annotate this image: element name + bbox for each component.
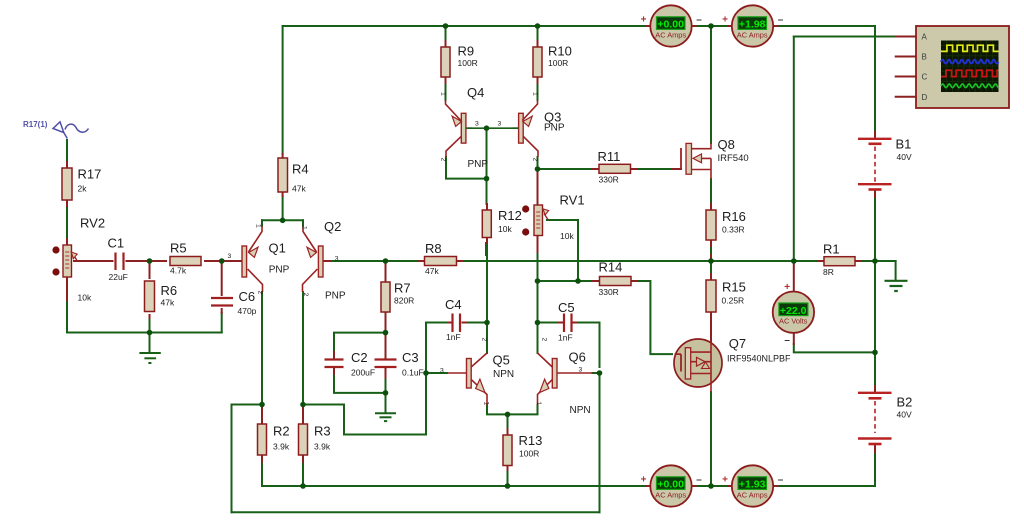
- svg-text:PNP: PNP: [544, 123, 565, 134]
- wire C6 bottom: [221, 313, 223, 333]
- wire scope A horizontal: [794, 36, 896, 38]
- svg-text:3: 3: [440, 368, 444, 375]
- svg-text:+: +: [722, 474, 728, 485]
- svg-text:330R: 330R: [599, 287, 619, 297]
- ground R6: [139, 353, 160, 363]
- wire mid rail R16node to scope node: [711, 260, 794, 262]
- wire voltmeter node to B2: [874, 352, 876, 386]
- svg-text:1nF: 1nF: [446, 332, 461, 342]
- node Q3Q4 bases: [484, 125, 490, 131]
- wire input source to R17: [66, 140, 68, 162]
- svg-text:2: 2: [481, 338, 488, 342]
- wire bottom long rail: [232, 511, 600, 513]
- wire scope stub D: [896, 96, 916, 98]
- svg-text:47k: 47k: [161, 298, 175, 308]
- svg-text:R17(1): R17(1): [23, 120, 48, 129]
- wire Q5 base vertical: [425, 373, 427, 435]
- svg-text:3.9k: 3.9k: [314, 442, 331, 452]
- WIRES-GREEN: [67, 26, 896, 512]
- wire R7 top lead: [385, 261, 387, 282]
- wire R2 bottom drop: [261, 462, 263, 486]
- wire meter1 stubs: [646, 25, 696, 27]
- wire scope stub C: [896, 76, 916, 78]
- wire R6 ground drop: [149, 333, 151, 353]
- svg-text:D: D: [922, 93, 928, 102]
- wire top rail right of meter2: [778, 25, 876, 27]
- transistor Q6: [538, 353, 593, 405]
- scope trace B blue: [941, 60, 999, 64]
- node R2 top: [259, 402, 265, 408]
- wire Q8 gate red stub: [672, 168, 681, 170]
- wire C2C3 top bracket: [334, 333, 386, 350]
- node R16 R15 rail: [708, 258, 714, 264]
- svg-text:3: 3: [498, 121, 502, 128]
- probe dot RV2 a: [52, 246, 59, 253]
- svg-text:Q7: Q7: [729, 336, 746, 351]
- capacitor C6: [211, 298, 233, 306]
- node Q5 base: [423, 370, 429, 376]
- svg-text:R3: R3: [314, 424, 331, 439]
- node RV1 wiper: [575, 278, 581, 284]
- resistor R9: [441, 47, 450, 77]
- resistor R8: [425, 257, 457, 266]
- wire R14 stubs: [593, 280, 637, 282]
- svg-text:+: +: [641, 14, 647, 25]
- node R6 gnd: [147, 330, 153, 336]
- node meters top: [708, 23, 714, 29]
- wire Q4 collector L: [446, 157, 487, 179]
- svg-text:+1.98: +1.98: [739, 19, 766, 31]
- svg-text:AC Amps: AC Amps: [737, 30, 768, 39]
- svg-text:R6: R6: [161, 283, 178, 298]
- wire C5 left lead: [538, 322, 559, 324]
- wire battery node to output ground: [875, 260, 896, 262]
- svg-text:AC Amps: AC Amps: [737, 490, 768, 499]
- wire R14 line left: [538, 280, 594, 282]
- svg-text:Q5: Q5: [493, 352, 510, 367]
- svg-text:Q8: Q8: [718, 137, 735, 152]
- node R13 bottom: [505, 483, 511, 489]
- wire Q1 base: [222, 260, 242, 262]
- wire feedback left vertical: [231, 405, 233, 513]
- svg-text:+: +: [722, 14, 728, 25]
- wire Q3 collector to R11 node: [537, 157, 539, 169]
- svg-text:330R: 330R: [599, 175, 619, 185]
- resistor R12: [482, 210, 491, 238]
- svg-text:8R: 8R: [823, 267, 834, 277]
- probe dot RV1 a: [522, 205, 529, 212]
- wire top rail y26: [283, 25, 646, 27]
- svg-text:2: 2: [541, 338, 548, 342]
- wire R6 bottom stub: [149, 318, 151, 333]
- svg-text:+: +: [641, 474, 647, 485]
- svg-text:1: 1: [483, 402, 490, 406]
- wire R1 to battery node: [861, 260, 875, 262]
- svg-text:R2: R2: [273, 424, 290, 439]
- capacitor C3: [375, 360, 397, 368]
- svg-text:22uF: 22uF: [109, 272, 128, 282]
- wire R9 stubs: [445, 41, 447, 83]
- svg-text:820R: 820R: [394, 296, 414, 306]
- wire Q2 emitter drop: [302, 220, 304, 226]
- wire voltmeter top lead: [793, 261, 795, 292]
- svg-text:–: –: [696, 15, 702, 26]
- resistor R7: [381, 282, 390, 312]
- wire Q4 base dot to R12: [486, 128, 488, 204]
- potentiometer RV2: [63, 245, 77, 277]
- svg-text:1: 1: [532, 92, 539, 96]
- node Q3 collector R11: [535, 166, 541, 172]
- resistor R17: [62, 168, 72, 200]
- wire V+ rail down to R4: [282, 26, 284, 154]
- wire R13 top stub: [507, 414, 509, 429]
- transistor Q5: [447, 353, 487, 405]
- svg-text:+22.0: +22.0: [780, 305, 807, 317]
- transistor Q2: [303, 226, 324, 292]
- wire RV2 top red stub: [66, 239, 68, 245]
- wire R4 stubs: [282, 154, 284, 196]
- svg-text:200uF: 200uF: [351, 368, 375, 378]
- svg-text:4.7k: 4.7k: [170, 266, 187, 276]
- node scope rail: [791, 258, 797, 264]
- svg-text:Q4: Q4: [467, 85, 484, 100]
- wire B2 leads: [874, 386, 876, 452]
- svg-text:3: 3: [475, 121, 479, 128]
- wire R1 stubs: [818, 260, 861, 262]
- node R13 top: [505, 412, 511, 418]
- wire meter3 stubs: [646, 485, 696, 487]
- svg-text:2: 2: [532, 158, 539, 162]
- wire Q5 base horizontal: [426, 372, 447, 374]
- capacitor C4: [453, 314, 461, 333]
- node Q1 base C6: [219, 258, 225, 264]
- svg-text:+1.93: +1.93: [739, 479, 766, 491]
- wire scope stub B: [896, 56, 916, 58]
- svg-text:47k: 47k: [292, 184, 306, 194]
- wire R11 left lead: [538, 168, 593, 170]
- wire C5 right L: [577, 323, 600, 368]
- wire bottom rail between meters: [696, 485, 729, 487]
- svg-text:2: 2: [257, 291, 264, 295]
- input terminal R17(1): [53, 122, 89, 139]
- svg-text:3: 3: [335, 256, 339, 263]
- node RV1 bottom: [535, 278, 541, 284]
- wire R16 stubs: [710, 204, 712, 246]
- svg-text:R15: R15: [722, 280, 746, 295]
- svg-text:Q1: Q1: [269, 241, 286, 256]
- svg-text:PNP: PNP: [269, 264, 290, 275]
- wire Q5 base L route: [344, 405, 426, 435]
- wire output ground drop: [895, 261, 897, 281]
- node C2C3 gnd: [383, 390, 389, 396]
- base rail Q4-Q3: [466, 127, 519, 129]
- svg-text:+0.00: +0.00: [657, 479, 684, 491]
- svg-text:IRF540: IRF540: [718, 153, 749, 164]
- svg-text:C2: C2: [351, 350, 368, 365]
- transistor Q1: [242, 226, 263, 292]
- wire mid rail to R1: [794, 260, 818, 262]
- wire Q6 base vertical lower: [599, 373, 601, 512]
- ground output: [885, 281, 908, 291]
- wire RV1 wiper route: [547, 220, 578, 281]
- wire R10 bottom gap: [537, 83, 539, 100]
- wire RV1 bottom to R14 line: [537, 236, 539, 255]
- wire scope stub A: [896, 36, 916, 38]
- svg-text:R10: R10: [548, 44, 572, 59]
- resistor R15: [706, 280, 716, 312]
- svg-text:R16: R16: [722, 209, 746, 224]
- wire R2 leads: [261, 405, 263, 463]
- svg-text:Q6: Q6: [569, 349, 586, 364]
- svg-text:R13: R13: [519, 433, 543, 448]
- ammeter M1: [641, 5, 703, 46]
- wire R15 leads: [710, 255, 712, 352]
- wire input line red: [74, 260, 113, 262]
- wire Q8 drain up: [710, 26, 712, 143]
- resistor R13: [503, 435, 512, 466]
- wire bottom rail left of meter3: [262, 485, 646, 487]
- wire C6 bottom stub: [221, 309, 223, 313]
- mosfet Q7: [674, 339, 722, 392]
- wire R15 top: [710, 261, 712, 274]
- wire C2 plate stubs: [333, 350, 335, 376]
- wire R3 leads: [302, 405, 304, 463]
- wire Q5 collector vertical: [486, 243, 488, 353]
- wire RV2 bottom L to ground rail: [67, 300, 222, 333]
- resistor R6: [145, 281, 155, 312]
- node Q2 base R7: [383, 258, 389, 264]
- wire scope A vertical: [793, 37, 795, 262]
- svg-text:3: 3: [228, 253, 232, 260]
- resistor R3: [299, 424, 308, 455]
- svg-text:C6: C6: [239, 289, 256, 304]
- wire B1 bottom to rail: [874, 197, 876, 261]
- svg-text:100R: 100R: [519, 449, 539, 459]
- svg-text:PNP: PNP: [468, 159, 489, 170]
- node C4 right: [484, 320, 490, 326]
- wire R11 right to Q8 gate: [637, 168, 672, 170]
- WIRES-RED: [67, 26, 916, 486]
- wire Q2 base to R7 node: [330, 260, 386, 262]
- wire meter4 stubs: [728, 485, 778, 487]
- scope trace A yellow: [941, 45, 999, 51]
- wire R17 to RV2: [66, 206, 68, 239]
- wire R9 top: [445, 26, 447, 41]
- svg-text:C1: C1: [108, 236, 125, 251]
- svg-text:PNP: PNP: [325, 291, 346, 302]
- svg-text:–: –: [778, 475, 784, 486]
- svg-text:AC Volts: AC Volts: [779, 317, 808, 326]
- svg-text:3: 3: [579, 367, 583, 374]
- wire C3 plate stubs: [385, 333, 387, 380]
- wire R7 bottom lead: [385, 312, 387, 333]
- scope trace C red: [941, 70, 999, 76]
- wire R5 to Q1 node: [205, 260, 222, 262]
- resistor R11: [599, 164, 631, 173]
- wire R9 bottom gap: [445, 83, 447, 100]
- wire R2 top rail: [232, 404, 263, 406]
- svg-text:NPN: NPN: [493, 369, 514, 380]
- transistor Q4: [446, 100, 519, 157]
- ammeter M3: [641, 465, 703, 506]
- wire R8 stubs: [418, 260, 463, 262]
- wire battery column top: [874, 26, 876, 132]
- svg-text:RV1: RV1: [560, 193, 585, 208]
- resistor R10: [533, 47, 542, 77]
- wire R13 bottom drop: [507, 470, 509, 486]
- ground C2C3: [375, 413, 396, 421]
- svg-text:AC Amps: AC Amps: [655, 490, 686, 499]
- probe dot RV1 b: [522, 228, 529, 235]
- svg-text:1: 1: [440, 92, 447, 96]
- wire C2C3 gnd drop: [385, 393, 387, 413]
- wire Q1 collector down to R2: [261, 292, 263, 405]
- wire rail to voltmeter node: [874, 261, 876, 352]
- wire C4 left vertical: [426, 323, 448, 374]
- svg-text:47k: 47k: [425, 266, 439, 276]
- node R10 top: [535, 23, 541, 29]
- node C5 left: [535, 320, 541, 326]
- wire B1 leads: [874, 132, 876, 197]
- svg-text:40V: 40V: [897, 410, 912, 420]
- scope trace D green: [941, 84, 999, 88]
- svg-text:–: –: [696, 475, 702, 486]
- node Q6 base: [597, 370, 603, 376]
- svg-text:1: 1: [301, 226, 308, 230]
- wire R6 bottom stub: [149, 315, 151, 318]
- wire R10 top: [537, 26, 539, 41]
- battery B1: [858, 139, 892, 190]
- svg-text:0.25R: 0.25R: [722, 296, 745, 306]
- wire R7 node to R8: [386, 260, 419, 262]
- wire C6 top lead: [221, 261, 223, 295]
- node R4 emitter rail: [280, 218, 286, 224]
- wire R13 leads: [507, 429, 509, 470]
- svg-text:R17: R17: [78, 167, 102, 182]
- voltmeter MV: [773, 282, 814, 346]
- svg-text:1nF: 1nF: [558, 333, 573, 343]
- svg-text:R8: R8: [425, 241, 442, 256]
- wire R3 top rail: [303, 404, 344, 406]
- mosfet Q8: [681, 143, 711, 179]
- capacitor C1: [116, 253, 124, 271]
- transistor Q3: [519, 100, 538, 157]
- wire C4 right lead: [466, 322, 487, 324]
- wire Q5 Q6 emitter joint: [487, 405, 538, 414]
- capacitor C2: [325, 360, 344, 368]
- node battery rail: [872, 258, 878, 264]
- wire voltmeter minus L: [794, 344, 875, 352]
- svg-text:2: 2: [302, 293, 309, 297]
- wire Q6 collector vertical: [537, 281, 539, 353]
- svg-text:10k: 10k: [560, 231, 574, 241]
- oscilloscope: [916, 26, 1009, 108]
- svg-text:C4: C4: [445, 297, 462, 312]
- node R9 top: [443, 23, 449, 29]
- resistor R14: [600, 277, 632, 286]
- svg-text:AC Amps: AC Amps: [655, 30, 686, 39]
- svg-text:R5: R5: [170, 241, 187, 256]
- wire R10 stubs: [537, 41, 539, 83]
- svg-text:100R: 100R: [548, 58, 568, 68]
- battery B2: [858, 393, 892, 444]
- svg-text:C5: C5: [558, 300, 575, 315]
- svg-text:C3: C3: [402, 350, 419, 365]
- resistor R5: [170, 257, 201, 266]
- svg-text:C: C: [922, 73, 928, 82]
- svg-text:R11: R11: [598, 149, 621, 164]
- node R3 bottom: [300, 483, 306, 489]
- wire C1 to R6 node: [127, 260, 150, 262]
- svg-text:R12: R12: [498, 208, 522, 223]
- wire R4 bottom to emitter rail: [282, 196, 284, 220]
- node voltmeter B2: [872, 350, 878, 356]
- resistor R2: [258, 424, 267, 455]
- svg-text:10k: 10k: [78, 293, 92, 303]
- wire C4 stubs: [448, 322, 466, 324]
- svg-text:A: A: [922, 32, 928, 41]
- wire R17 stubs: [66, 162, 68, 206]
- wire Q1 emitter drop: [261, 220, 263, 226]
- node Q4 collector: [484, 176, 490, 182]
- wire Q2 base stub: [323, 260, 330, 262]
- wire C2C3 bottom bracket: [334, 376, 386, 393]
- svg-text:40V: 40V: [897, 152, 912, 162]
- wire R6 node to R5: [150, 260, 167, 262]
- wire RV2 bottom stub: [66, 277, 68, 300]
- wire R12 bottom: [485, 243, 487, 255]
- wire R6 top lead: [149, 261, 151, 278]
- svg-text:3.9k: 3.9k: [273, 442, 290, 452]
- svg-text:B2: B2: [897, 395, 913, 410]
- node R3 top: [300, 402, 306, 408]
- svg-text:+0.00: +0.00: [657, 19, 684, 31]
- PIN NUMBERS: [228, 92, 583, 406]
- wire R3 bottom drop: [302, 462, 304, 486]
- wire R12 stubs: [486, 204, 488, 243]
- resistor R4: [278, 158, 288, 192]
- wire top rail between meters: [696, 25, 729, 27]
- ammeter M2: [722, 5, 784, 46]
- svg-text:10k: 10k: [498, 224, 512, 234]
- wire C5 stubs: [559, 322, 578, 324]
- svg-text:470p: 470p: [238, 306, 257, 316]
- svg-text:NPN: NPN: [570, 405, 591, 416]
- wire B2 bottom to bottom rail: [874, 452, 876, 486]
- wire R11 node down to RV1: [537, 169, 539, 205]
- wire R16 bottom: [710, 246, 712, 255]
- svg-text:2k: 2k: [78, 184, 88, 194]
- svg-text:RV2: RV2: [80, 216, 105, 231]
- node meters bottom: [708, 483, 714, 489]
- node C1 R5 R6: [147, 258, 153, 264]
- svg-text:R9: R9: [458, 44, 475, 59]
- svg-text:2: 2: [440, 158, 447, 162]
- svg-text:0.1uF: 0.1uF: [402, 368, 424, 378]
- wire Q7 to bottom rail: [710, 392, 712, 486]
- svg-text:Q2: Q2: [324, 219, 341, 234]
- svg-text:R1: R1: [823, 242, 840, 257]
- svg-text:+: +: [784, 282, 790, 293]
- svg-text:IRF9540NLPBF: IRF9540NLPBF: [727, 353, 791, 363]
- wire mid rail R12node to R16node: [486, 260, 711, 262]
- svg-text:R4: R4: [292, 162, 309, 177]
- wire meter2 stubs: [728, 25, 778, 27]
- wire bottom rail right segment: [778, 485, 876, 487]
- svg-text:1: 1: [255, 224, 262, 228]
- wire RV1 bottom lower green: [537, 254, 539, 281]
- svg-text:R14: R14: [599, 260, 623, 275]
